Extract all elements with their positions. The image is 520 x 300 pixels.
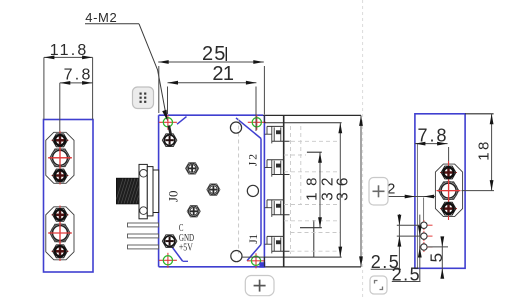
screw D (187, 206, 200, 217)
line from J1 circle (242, 256, 264, 258)
pin hole #2 (419, 231, 433, 241)
label J1 (248, 234, 260, 244)
mounting hole M2 #3 (159, 253, 177, 268)
pin hole #1 (419, 220, 433, 230)
screw E (162, 235, 177, 248)
selection grip (259, 262, 265, 268)
screw S4 (53, 208, 68, 221)
screw group outline lower (46, 207, 74, 260)
svg-text:11.8: 11.8 (50, 42, 87, 59)
dimension 25 (158, 43, 264, 115)
left view part outline (44, 120, 94, 273)
dimension 32 (320, 123, 343, 257)
screw C (207, 184, 220, 195)
screw S2 large (49, 147, 72, 169)
centerline lower group (48, 206, 72, 262)
screw group outline upper (46, 132, 74, 183)
side view bottom edge (265, 266, 361, 268)
screw S6 (53, 245, 68, 258)
dimension 2.5 upper (371, 214, 402, 272)
label J0 (166, 191, 181, 203)
svg-text:25: 25 (202, 43, 225, 65)
dimension 7.8 left view (60, 67, 93, 142)
svg-text:J0: J0 (166, 191, 181, 203)
dimension 21 (168, 63, 257, 131)
svg-text:7.8: 7.8 (418, 126, 447, 146)
pin hole #3 (419, 242, 433, 252)
J0 pins (128, 223, 159, 249)
connector centerline (437, 161, 461, 220)
connector circle J2 (230, 122, 241, 133)
connector side profile #4 (265, 236, 290, 253)
svg-text:7.8: 7.8 (64, 67, 91, 84)
plus button bottom (245, 276, 274, 296)
connector circle mid (247, 185, 258, 196)
centerline upper group (48, 131, 72, 185)
dimension 11.8 (44, 42, 93, 120)
connector nut top (441, 166, 456, 179)
svg-text:+5V: +5V (179, 243, 194, 254)
construction centerline separator (362, 0, 364, 300)
mounting hole M2 #1 (159, 115, 177, 130)
svg-text:4-M2: 4-M2 (85, 10, 117, 25)
connector side profile #2 (265, 160, 290, 177)
front chamfer bottom-left (171, 246, 188, 262)
screw S1 (53, 134, 68, 147)
right view outline (415, 114, 465, 268)
mounting hole M2 #4 (247, 253, 265, 268)
connector circle J1 (231, 251, 242, 262)
pin extension lines (397, 225, 448, 247)
connector nut mid large (437, 180, 460, 202)
svg-text:J1: J1 (248, 234, 260, 244)
plus button right (369, 178, 388, 206)
corner button (370, 276, 387, 294)
side view body (264, 115, 341, 267)
dimension 18 side view (300, 152, 322, 228)
side view top edge (239, 114, 361, 116)
svg-text:21: 21 (212, 63, 234, 85)
mounting hole M2 #2 (248, 115, 266, 130)
front chamfer bottom-right (247, 245, 261, 261)
dimension 5 (427, 236, 446, 278)
dimension 2.5 lower (392, 215, 422, 285)
dimension 2 (387, 181, 435, 222)
screw B (186, 163, 199, 174)
label 4-M2 with leader (85, 10, 171, 138)
pin labels C GND +5V (179, 223, 194, 254)
front chamfer top-left (177, 117, 187, 125)
label J2 (247, 154, 259, 166)
right view inner edge (416, 144, 418, 268)
dimension 18 right view (462, 114, 495, 191)
front view outline (159, 115, 265, 267)
svg-text:J2: J2 (247, 154, 259, 166)
connector side profile #3 (265, 200, 290, 217)
screw S5 large (49, 222, 72, 244)
connector nut bottom (441, 202, 456, 215)
SMA connector J0 (115, 164, 159, 218)
dimension 7.8 right view (415, 126, 449, 165)
svg-text:5: 5 (427, 253, 446, 262)
grid handle button (133, 87, 154, 109)
screw A (162, 134, 177, 147)
screw S3 (53, 169, 68, 182)
connector side profile #1 (265, 126, 290, 143)
front view centerline (238, 119, 240, 254)
front chamfer top-right (236, 118, 261, 139)
front inner right edge (260, 139, 262, 245)
connector group outline (435, 164, 462, 217)
hidden lines (284, 126, 341, 254)
dimension 36 (335, 115, 363, 267)
